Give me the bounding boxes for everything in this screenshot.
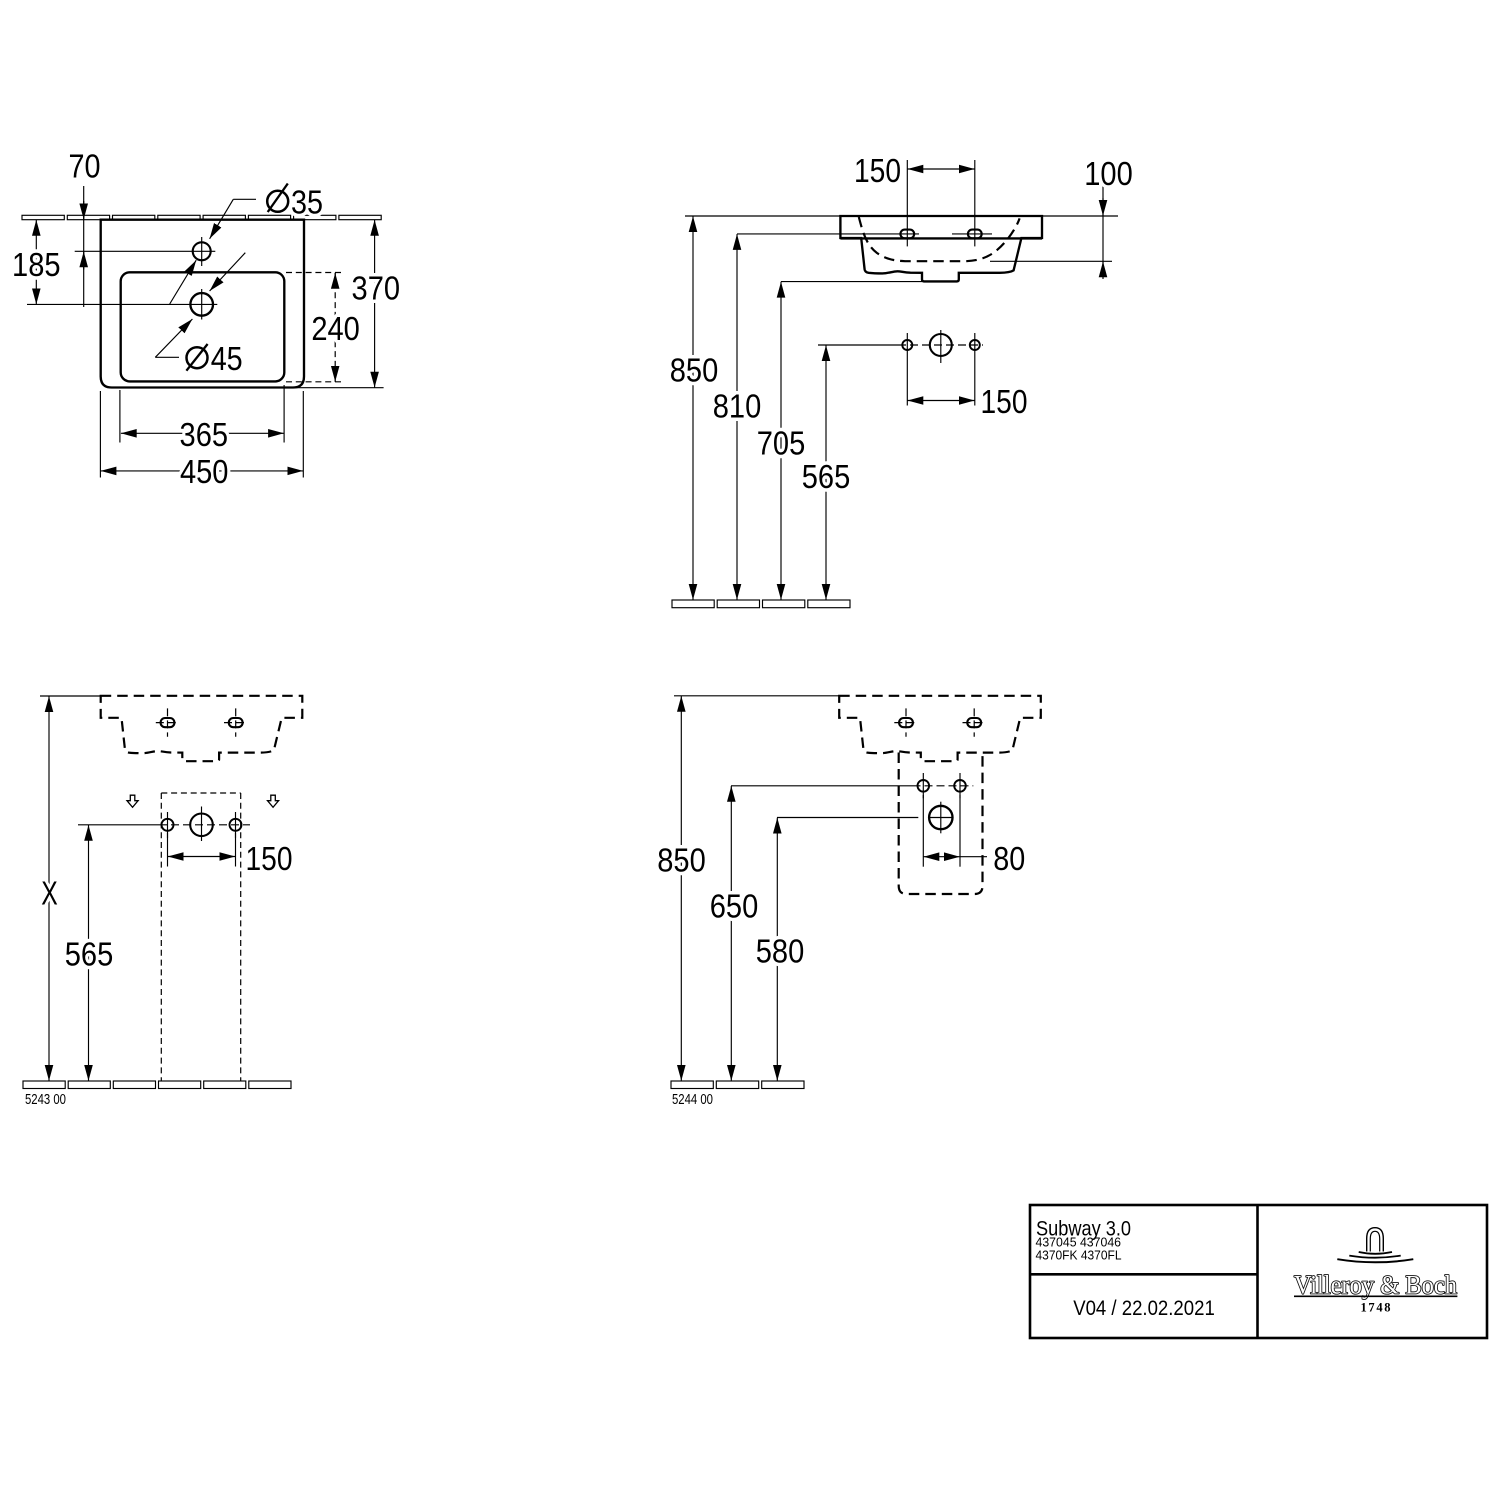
logo bowl arcs: [1337, 1252, 1413, 1262]
left tap hole (pedestal view): [161, 718, 175, 727]
svg-text:80: 80: [993, 840, 1025, 877]
floor hatch band (siphon view): [671, 1081, 804, 1089]
dimension 70 (wall to tap hole): [83, 186, 85, 307]
floor hatch band (pedestal view): [23, 1081, 291, 1089]
dimension 565 (pedestal view): [88, 825, 90, 1081]
right tap hole (pedestal view): [229, 718, 243, 727]
rim reference line (pedestal view): [40, 695, 101, 697]
svg-text:1748: 1748: [1361, 1301, 1394, 1315]
svg-text:4370FK 4370FL: 4370FK 4370FL: [1036, 1247, 1122, 1262]
fixing holes (siphon view): [731, 785, 913, 787]
dimension 150 top (tap hole spacing): [908, 168, 975, 170]
extension line interior bottom (for 100): [990, 260, 1112, 262]
logo arch icon: [1367, 1228, 1384, 1252]
crosshair of 45mm hole: [27, 303, 217, 305]
svg-text:365: 365: [180, 416, 229, 453]
title block horizontal divider: [1030, 1273, 1258, 1276]
dimension 705 (front view): [780, 282, 782, 600]
svg-text:35: 35: [291, 184, 323, 221]
dimension 580 (siphon view): [776, 818, 778, 1081]
dimension 150 (pedestal fixing holes): [167, 833, 169, 867]
crosshair of 35mm hole: [75, 250, 216, 252]
dimension 850 (front view): [692, 216, 694, 600]
drain hole (siphon view): [777, 817, 918, 819]
svg-text:580: 580: [756, 933, 805, 970]
dimension 240 (bowl depth): [334, 273, 336, 382]
pedestal dashed left side: [160, 793, 162, 1081]
dimension 450 (overall width): [99, 391, 101, 478]
svg-text:Villeroy & Boch: Villeroy & Boch: [1294, 1271, 1457, 1300]
down-arrow symbol right: [268, 795, 279, 807]
dimension 365 (bowl width): [119, 390, 121, 443]
dimension 810 (front view): [736, 234, 738, 600]
basin outer rim (plan view): [101, 220, 304, 388]
dimension 650 (siphon view): [730, 786, 732, 1081]
right tap hole (front view): [968, 230, 982, 239]
svg-text:810: 810: [713, 388, 762, 425]
svg-text:70: 70: [69, 148, 101, 185]
leader and label diameter 45: [155, 356, 179, 358]
drain hole circle (45mm, plan): [190, 293, 213, 316]
svg-text:5244 00: 5244 00: [672, 1092, 713, 1108]
svg-text:450: 450: [180, 453, 229, 490]
svg-text:565: 565: [65, 936, 114, 973]
dimension 150 bottom (fixing hole spacing): [906, 357, 908, 406]
title block frame: [1030, 1205, 1487, 1338]
basin silhouette dashed (pedestal view): [101, 696, 303, 761]
siphon cover dashed outline: [899, 753, 983, 895]
extension line rim bottom: [284, 387, 384, 389]
dimension X (floor to rim): [48, 696, 50, 1081]
dimension 370 (depth overall): [374, 220, 376, 388]
svg-text:850: 850: [657, 842, 706, 879]
wall reference line (front view): [685, 215, 1118, 217]
dashed extension line bowl bottom: [286, 381, 345, 383]
basin inner bowl (plan view): [121, 272, 285, 381]
basin silhouette dashed (siphon view): [839, 696, 1041, 761]
dimension 100 (rim to interior bottom): [1102, 186, 1104, 278]
down-arrow symbol left: [127, 795, 138, 807]
dimension 565 (front view): [825, 345, 827, 600]
svg-text:185: 185: [12, 246, 61, 283]
dashed extension line bowl top: [286, 272, 345, 274]
extension line through tap holes (front view): [737, 233, 919, 235]
leader and label diameter 35: [233, 198, 256, 200]
svg-text:150: 150: [854, 152, 901, 189]
fixing hole group (front view): [818, 344, 898, 346]
svg-text:650: 650: [710, 888, 759, 925]
svg-text:850: 850: [670, 352, 719, 389]
rim bottom edge (front view): [840, 237, 1042, 239]
left tap hole (front view): [900, 230, 914, 239]
dimension 850 (siphon view): [680, 696, 682, 1081]
svg-text:565: 565: [802, 458, 851, 495]
dimension 185 (wall to drain hole): [35, 220, 37, 304]
drilling template dashed top: [161, 792, 240, 794]
extension line basin underside: [781, 281, 922, 283]
title block vertical divider: [1256, 1205, 1259, 1338]
fixing hole group (pedestal view): [78, 824, 159, 826]
svg-text:X: X: [41, 875, 58, 912]
dimension 80 (fixing hole spacing): [922, 795, 924, 867]
logo underline: [1294, 1295, 1457, 1297]
tap hole extension lines (front view): [906, 160, 908, 246]
svg-text:705: 705: [757, 425, 806, 462]
svg-text:V04 / 22.02.2021: V04 / 22.02.2021: [1073, 1297, 1215, 1320]
svg-text:240: 240: [311, 310, 360, 347]
svg-text:5243 00: 5243 00: [25, 1092, 66, 1108]
svg-text:45: 45: [211, 340, 243, 377]
tap hole circle (35mm, plan): [193, 242, 211, 260]
svg-text:150: 150: [981, 383, 1028, 420]
svg-text:370: 370: [352, 270, 401, 307]
basin silhouette (front view): [840, 216, 1042, 281]
svg-text:100: 100: [1084, 155, 1133, 192]
floor hatch band (front view): [672, 600, 850, 608]
rim reference line (siphon view): [674, 695, 839, 697]
pedestal dashed right side: [240, 793, 242, 1081]
svg-text:150: 150: [246, 840, 293, 877]
right tap hole (siphon view): [967, 718, 981, 727]
wall hatch band (top view): [22, 215, 381, 219]
interior bowl dashed curve (front view): [859, 217, 1020, 261]
left tap hole (siphon view): [899, 718, 913, 727]
